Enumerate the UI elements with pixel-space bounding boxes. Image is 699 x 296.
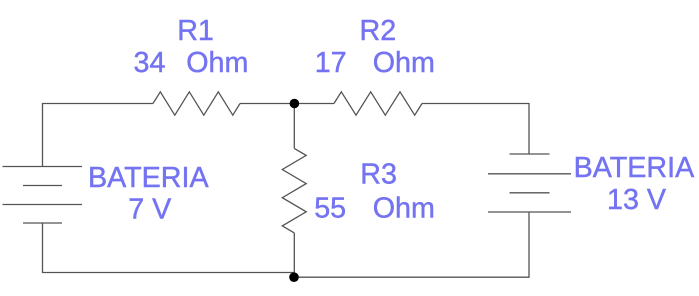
battery BT1 7V: upper short plate (23, 185, 62, 187)
node A (junction dot) (290, 99, 300, 109)
wire: R2 right lead across and down to right battery top (422, 104, 529, 155)
wire: node A down to R3 top lead (293, 104, 295, 149)
svg-text:BATERIA: BATERIA (574, 152, 695, 184)
battery BT2 13V: top short plate (510, 153, 550, 155)
svg-text:R2: R2 (360, 15, 397, 47)
wire: R3 bottom lead down to node B (293, 233, 295, 277)
resistor R1 (zigzag) (153, 92, 240, 115)
wire: R1 right lead to node A (240, 103, 294, 105)
svg-text:17: 17 (315, 47, 347, 79)
resistor R3 (vertical zigzag) (282, 148, 306, 233)
svg-text:55: 55 (314, 192, 346, 224)
svg-text:R3: R3 (360, 158, 397, 190)
svg-text:BATERIA: BATERIA (88, 162, 209, 194)
wire: right battery bottom down and across to node B (294, 212, 529, 277)
svg-text:Ohm: Ohm (186, 47, 248, 79)
battery BT1 7V: bottom short plate (23, 222, 62, 224)
battery BT2 13V: upper long plate (488, 173, 571, 175)
battery BT1 7V: top long plate (3, 166, 83, 168)
svg-text:Ohm: Ohm (373, 47, 435, 79)
wire: node B across to left battery bottom (43, 223, 295, 273)
svg-text:R1: R1 (177, 15, 214, 47)
wire: left battery positive terminal up and across to R1 (43, 104, 154, 167)
resistor R2 (zigzag) (334, 92, 422, 115)
svg-text:13 V: 13 V (607, 184, 667, 216)
battery BT2 13V: lower short plate (510, 192, 550, 194)
svg-text:Ohm: Ohm (373, 192, 435, 224)
wire: node A to R2 left lead (294, 103, 334, 105)
battery BT1 7V: lower long plate (3, 204, 83, 206)
svg-text:7 V: 7 V (128, 194, 172, 226)
node B (junction dot) (289, 272, 299, 282)
svg-text:34: 34 (134, 47, 166, 79)
battery BT2 13V: bottom long plate (488, 211, 571, 213)
